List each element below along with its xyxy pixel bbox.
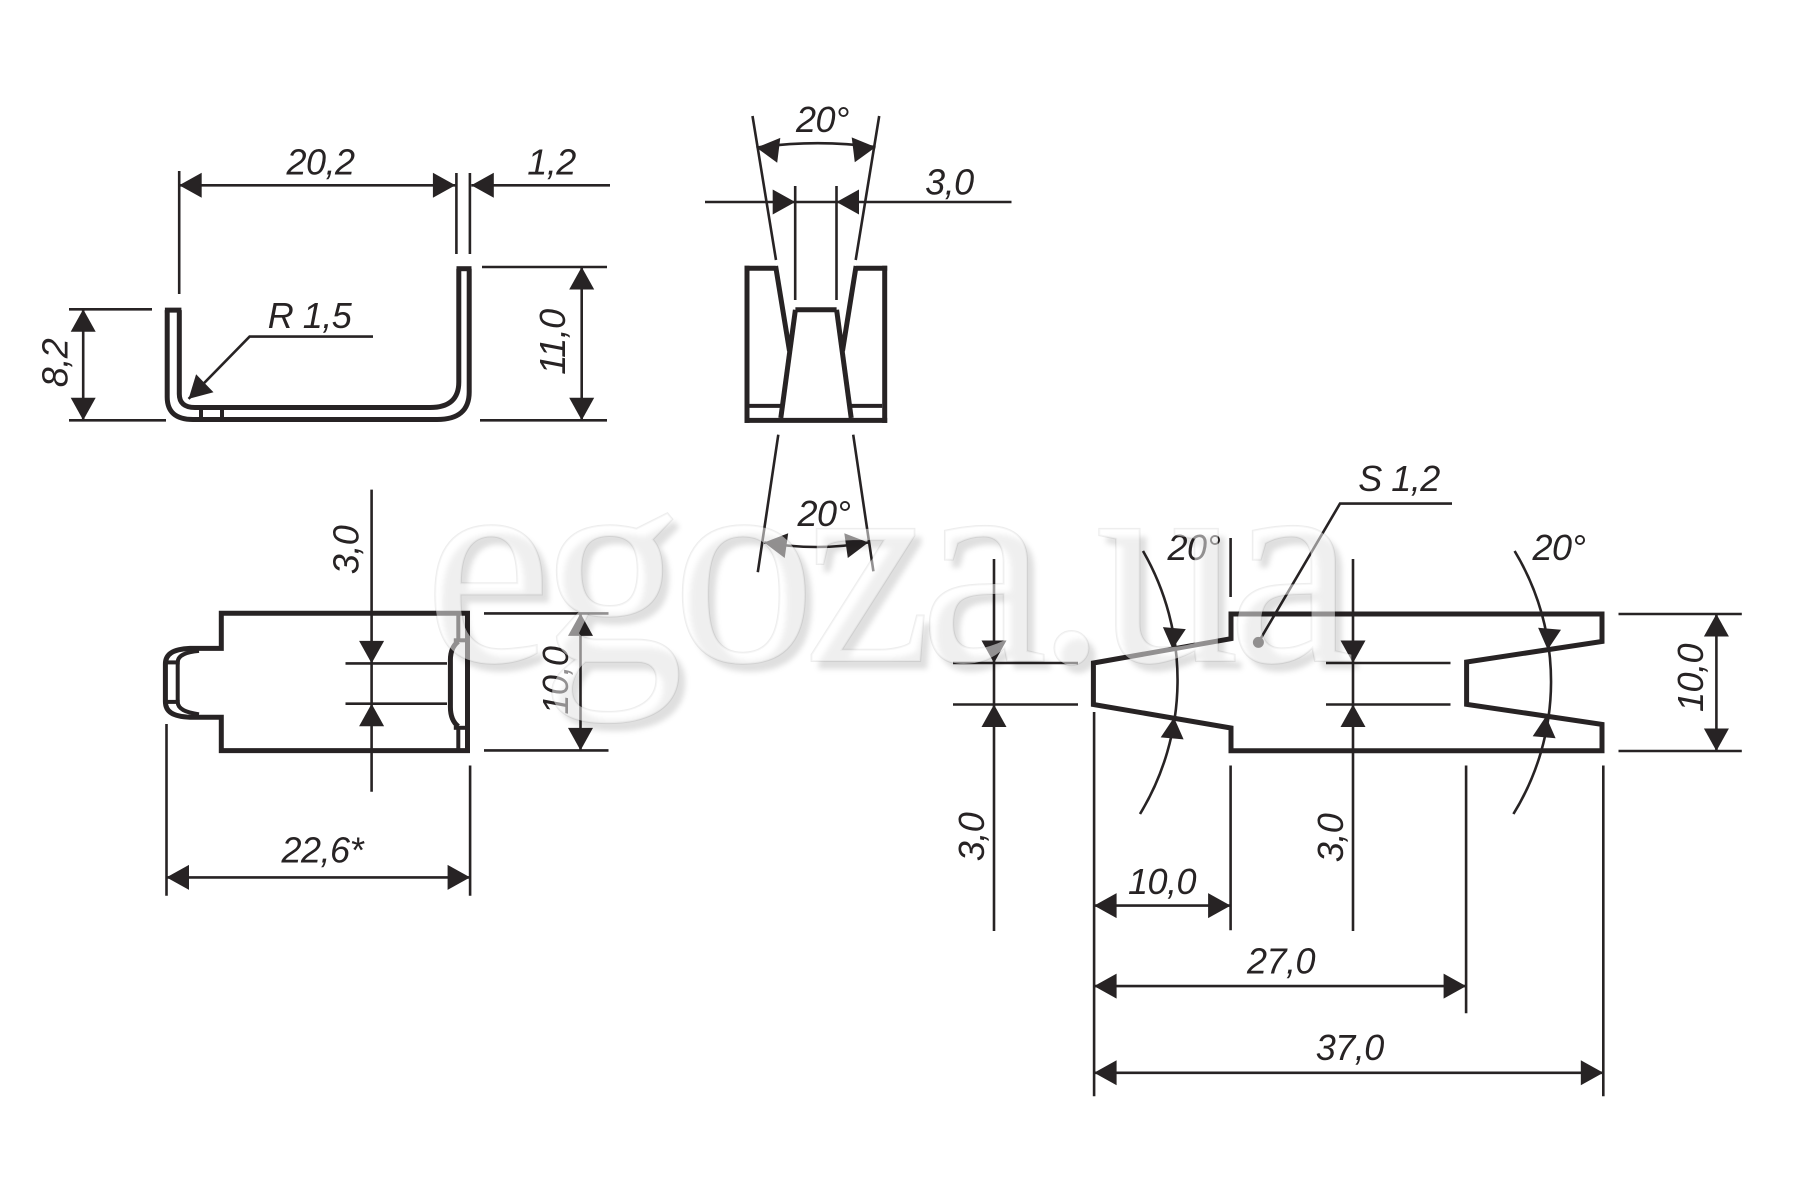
svg-text:S 1,2: S 1,2: [1358, 458, 1440, 499]
svg-text:20,2: 20,2: [285, 142, 355, 183]
svg-text:3,0: 3,0: [1310, 813, 1351, 862]
svg-text:1,2: 1,2: [527, 142, 576, 183]
svg-text:R 1,5: R 1,5: [268, 295, 353, 336]
svg-text:3,0: 3,0: [951, 812, 992, 861]
svg-text:3,0: 3,0: [325, 525, 366, 574]
svg-text:20°: 20°: [795, 99, 849, 140]
svg-text:10,0: 10,0: [1670, 643, 1711, 712]
svg-text:11,0: 11,0: [532, 309, 573, 375]
svg-text:27,0: 27,0: [1246, 941, 1316, 982]
svg-text:3,0: 3,0: [925, 162, 974, 203]
svg-text:egoza.ua: egoza.ua: [424, 405, 1353, 724]
svg-text:8,2: 8,2: [35, 338, 76, 387]
svg-text:20°: 20°: [1532, 527, 1586, 568]
svg-text:22,6*: 22,6*: [281, 830, 365, 871]
svg-text:10,0: 10,0: [1128, 861, 1197, 902]
svg-text:37,0: 37,0: [1316, 1027, 1385, 1068]
